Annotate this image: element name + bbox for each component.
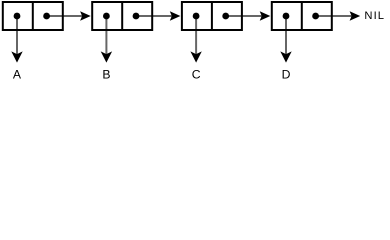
label D (282, 68, 291, 82)
node 3 next pointer dot (222, 13, 229, 20)
NIL label (364, 10, 385, 22)
node 4 data pointer arrowhead (280, 51, 291, 62)
node 3 next pointer arrowhead (260, 11, 271, 20)
node 2 box (92, 2, 152, 30)
node 1 box (3, 2, 63, 30)
node 1 next pointer wire (right) (47, 15, 83, 17)
node 2 cell divider (121, 2, 123, 31)
svg-text:D: D (282, 68, 291, 82)
node 2 next pointer dot (133, 13, 140, 20)
node 1 data pointer dot (14, 13, 21, 20)
node 1 data pointer arrowhead (11, 51, 22, 62)
node 4 next pointer wire (right) (316, 15, 352, 17)
node 2 data pointer wire (down to B) (105, 16, 107, 55)
node 2 next pointer arrowhead (170, 11, 181, 20)
node 3 box (182, 2, 242, 30)
node 4 next pointer dot (312, 13, 319, 20)
node 2 next pointer wire (right) (136, 15, 172, 17)
node 4 box (272, 2, 332, 30)
node 1 next pointer arrowhead (80, 11, 91, 20)
svg-text:NIL: NIL (364, 10, 385, 22)
node 1 next pointer dot (43, 13, 50, 20)
node 3 data pointer wire (down to C) (195, 16, 197, 55)
node 1 data pointer wire (down to A) (16, 16, 18, 55)
node 4 cell divider (301, 2, 303, 31)
label B (102, 68, 110, 82)
label C (192, 68, 201, 82)
node 3 data pointer dot (193, 13, 200, 20)
svg-text:C: C (192, 68, 201, 82)
label A (13, 68, 22, 82)
node 3 cell divider (211, 2, 213, 31)
node 3 next pointer wire (right) (226, 15, 262, 17)
svg-text:A: A (13, 68, 22, 82)
node 1 cell divider (32, 2, 34, 31)
node 4 data pointer dot (283, 13, 290, 20)
node 2 data pointer arrowhead (101, 51, 112, 62)
node 2 data pointer dot (103, 13, 110, 20)
svg-text:B: B (102, 68, 110, 82)
node 4 data pointer wire (down to D) (285, 16, 287, 55)
node 3 data pointer arrowhead (190, 51, 201, 62)
node 4 next pointer arrowhead (350, 11, 361, 20)
